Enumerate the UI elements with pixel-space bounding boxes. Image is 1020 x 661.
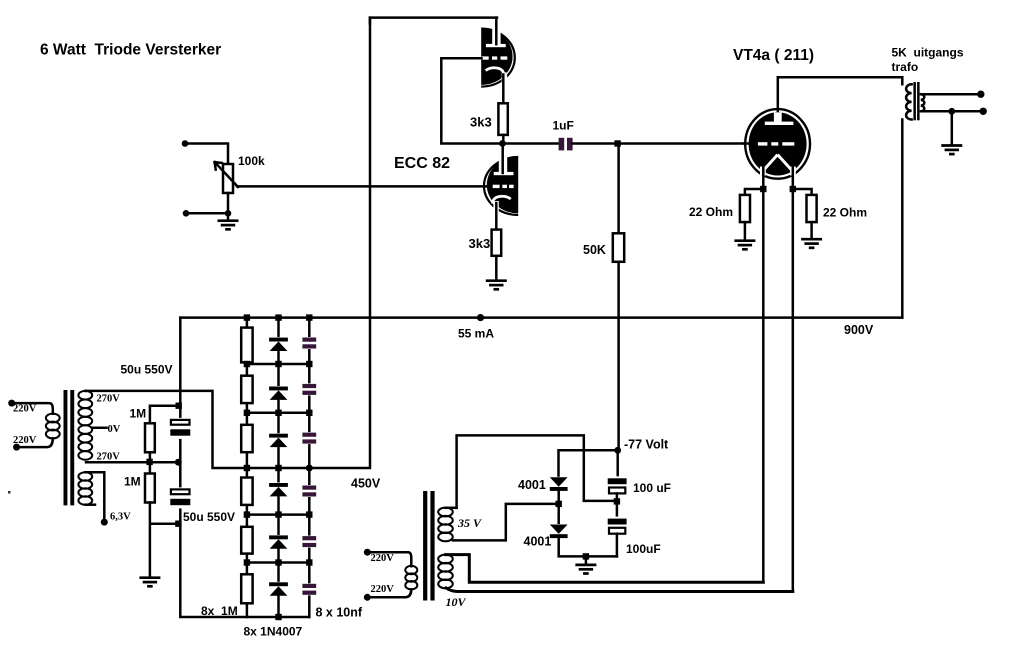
T2 primary terminal bottom bbox=[364, 594, 371, 601]
wire 10V top lead to filament left bbox=[446, 555, 764, 583]
svg-text:ECC 82: ECC 82 bbox=[394, 155, 450, 172]
wire pot bottom to junction bbox=[227, 193, 230, 213]
wire secondary bottom to output terminal bbox=[923, 110, 983, 113]
resistor 22 Ohm left bbox=[740, 195, 750, 222]
junction square filament right bbox=[790, 186, 796, 192]
node B junction square bbox=[614, 140, 620, 146]
ladder diode column bbox=[277, 318, 280, 617]
wire 3k3 lower to ground bbox=[495, 256, 498, 280]
wire junction to ground bbox=[227, 213, 230, 219]
junction squares ladder rung 3 bbox=[244, 410, 313, 416]
transformer T3 secondary winding bbox=[921, 94, 924, 111]
triode U1a (ECC82 upper half) bbox=[481, 28, 515, 87]
T1 HV secondary winding bbox=[78, 391, 92, 460]
wire 1M2 bottom to cap column bbox=[150, 503, 179, 577]
svg-text:4001: 4001 bbox=[524, 535, 552, 549]
wire T1 primary top bbox=[12, 403, 53, 414]
svg-text:220V: 220V bbox=[13, 435, 37, 446]
cap ladder C5 bbox=[302, 536, 316, 548]
ladder rung 6 bbox=[247, 561, 309, 564]
junction squares ladder rung 4 bbox=[244, 465, 282, 471]
wire smoothing cap column bbox=[180, 318, 309, 617]
wire 1M1 bottom bbox=[149, 452, 152, 462]
ground U1b cathode bbox=[486, 281, 507, 290]
T2 primary terminal top bbox=[364, 549, 371, 556]
transformer T2 core bbox=[423, 491, 435, 601]
junction dot 55mA bbox=[477, 314, 484, 321]
svg-text:50K: 50K bbox=[583, 243, 606, 257]
wire filament right to R 22 Ohm bbox=[793, 189, 812, 195]
svg-text:100uF: 100uF bbox=[626, 542, 661, 556]
ground 1M chain bbox=[139, 578, 160, 587]
svg-text:50u 550V: 50u 550V bbox=[121, 363, 173, 377]
capacitor 50u 550V lower bbox=[169, 487, 192, 508]
resistor ladder R1 bbox=[241, 328, 252, 363]
terminal 6.3V bbox=[101, 519, 108, 526]
svg-text:270V: 270V bbox=[97, 394, 121, 405]
resistor 3k3 lower bbox=[492, 230, 502, 256]
svg-text:4001: 4001 bbox=[518, 478, 546, 492]
ground bias doubler bbox=[575, 565, 596, 574]
transformer T1 mains core bbox=[64, 390, 75, 505]
U1b cathode lead bbox=[495, 203, 498, 230]
diode ladder D5 bbox=[269, 535, 288, 549]
wire 50K to -77V node bbox=[617, 262, 620, 451]
ground 22 Ohm right bbox=[801, 239, 822, 248]
svg-text:6,3V: 6,3V bbox=[110, 512, 131, 523]
svg-text:0V: 0V bbox=[108, 424, 121, 435]
wire T2 primary bottom bbox=[367, 589, 411, 597]
wire 270V bottom bbox=[86, 461, 178, 464]
diode 4001 lower bbox=[550, 524, 568, 538]
capacitor 1uF bbox=[559, 138, 573, 151]
stray dot bbox=[8, 491, 11, 494]
capacitor 100uF upper bbox=[606, 476, 629, 495]
svg-text:6 Watt Triode Versterker: 6 Watt Triode Versterker bbox=[40, 42, 221, 59]
wire 900V bus bbox=[180, 316, 902, 319]
junction dot ladder rung 4 cap column bbox=[306, 465, 313, 472]
U2 filament lead right bbox=[792, 167, 795, 189]
U1a cathode lead bbox=[502, 75, 505, 104]
triode U1b (ECC82 lower half, mirrored) bbox=[484, 156, 518, 215]
wire 35V top riser bbox=[457, 435, 617, 508]
ladder resistor column bbox=[246, 318, 249, 617]
resistor 50K bbox=[613, 233, 624, 261]
junction secondary ground bbox=[948, 108, 955, 115]
junction squares ladder top rung bbox=[244, 314, 313, 320]
svg-text:3k3: 3k3 bbox=[469, 236, 491, 251]
wire between 100uF caps bbox=[616, 493, 619, 518]
svg-text:35 V: 35 V bbox=[457, 516, 482, 530]
junction pot bottom bbox=[225, 210, 232, 217]
junction dot -77V bbox=[614, 447, 621, 454]
ground input bbox=[218, 221, 239, 230]
svg-text:1M: 1M bbox=[124, 475, 141, 489]
wire 22 Ohm left to ground bbox=[744, 222, 747, 239]
wire 0V tap bbox=[92, 426, 107, 429]
svg-text:220V: 220V bbox=[13, 404, 37, 415]
U2 plate lead and wire to output transformer bbox=[778, 77, 903, 111]
svg-text:8x 1M: 8x 1M bbox=[201, 604, 238, 618]
T1 primary winding bbox=[46, 414, 60, 439]
wire 6.3V stub bbox=[85, 503, 95, 506]
svg-text:8x 1N4007: 8x 1N4007 bbox=[244, 625, 303, 639]
T2 primary winding bbox=[405, 566, 417, 590]
T1 heater winding 6.3V bbox=[78, 472, 92, 504]
ground output secondary bbox=[941, 146, 962, 155]
wire 10V bottom lead to filament right bbox=[446, 588, 793, 592]
svg-text:270V: 270V bbox=[97, 452, 121, 463]
svg-text:220V: 220V bbox=[371, 584, 395, 595]
resistor ladder R5 bbox=[241, 527, 252, 554]
wire filament left to R 22 Ohm bbox=[745, 189, 763, 195]
svg-text:100k: 100k bbox=[238, 154, 265, 168]
diode ladder D6 bbox=[269, 582, 288, 596]
wire secondary to ground bbox=[951, 111, 954, 144]
wire 450V net: 270V-top to rung4 to top B+ wire bbox=[86, 18, 497, 468]
resistor ladder R6 bbox=[241, 574, 252, 603]
svg-text:1uF: 1uF bbox=[553, 119, 574, 133]
wire 35V bottom to diode mid bbox=[453, 504, 556, 541]
resistor ladder R3 bbox=[241, 425, 252, 452]
node A junction dot bbox=[499, 140, 506, 147]
cap ladder C1 bbox=[302, 337, 316, 349]
diode ladder D2 bbox=[269, 386, 288, 400]
wire 1M2 top bbox=[149, 462, 152, 474]
diode ladder D3 bbox=[269, 433, 288, 447]
wire 22 Ohm right to ground bbox=[810, 222, 813, 238]
wire -77V node bbox=[559, 450, 618, 477]
wire diode bottom rail bbox=[559, 538, 617, 556]
ladder rung 3 bbox=[247, 412, 309, 415]
svg-text:22 Ohm: 22 Ohm bbox=[689, 205, 733, 219]
junction square ladder bottom bbox=[275, 614, 281, 620]
U2 grid lead bbox=[744, 142, 751, 145]
svg-text:220V: 220V bbox=[371, 553, 395, 564]
cap ladder C6 bbox=[302, 583, 316, 595]
svg-text:5K uitgangs: 5K uitgangs bbox=[892, 46, 964, 60]
junction square filament left bbox=[760, 186, 766, 192]
junction squares ladder rung 6 bbox=[244, 559, 313, 565]
svg-text:22 Ohm: 22 Ohm bbox=[823, 206, 867, 220]
capacitor 50u 550V upper bbox=[169, 418, 192, 439]
cap ladder C4 bbox=[302, 485, 316, 497]
wire ground stub bbox=[585, 556, 588, 563]
pot wiper arrow bbox=[215, 162, 238, 187]
wire node B to 50K bbox=[617, 144, 620, 234]
svg-text:8 x 10nf: 8 x 10nf bbox=[316, 606, 363, 620]
wire 3k3 to node A bbox=[502, 135, 505, 144]
wire filament left long drop bbox=[762, 189, 765, 582]
wire T3 primary bottom to 900V bus bbox=[901, 120, 904, 318]
wire filament right long drop bbox=[792, 189, 795, 592]
wire input bottom bbox=[186, 212, 228, 215]
ground 22 Ohm left bbox=[734, 241, 755, 250]
input terminal upper bbox=[182, 140, 189, 147]
junction square 270V/1M bbox=[146, 459, 152, 465]
resistor 1M lower bbox=[145, 474, 155, 503]
U2 filament lead left bbox=[762, 167, 765, 189]
U1a plate lead bbox=[495, 18, 498, 45]
svg-text:900V: 900V bbox=[844, 323, 874, 337]
U1a grid wire to node A bbox=[441, 58, 500, 143]
capacitor 100uF lower bbox=[606, 517, 629, 536]
svg-text:55 mA: 55 mA bbox=[458, 327, 494, 341]
wire secondary top to output terminal bbox=[923, 93, 981, 96]
svg-text:100 uF: 100 uF bbox=[633, 481, 671, 495]
wire diode mid bbox=[557, 491, 560, 525]
cap ladder C3 bbox=[302, 432, 316, 444]
triode U2 VT4a (211) bbox=[745, 109, 810, 179]
svg-text:50u 550V: 50u 550V bbox=[183, 510, 235, 524]
wire 35V winding top lead bbox=[446, 507, 457, 510]
T2 35V winding bbox=[438, 508, 453, 542]
transformer T3 output primary winding bbox=[906, 84, 912, 119]
output terminal bottom bbox=[980, 108, 987, 115]
wire input top to pot bbox=[185, 144, 228, 165]
svg-text:3k3: 3k3 bbox=[470, 115, 492, 130]
wire -77V to 100uF bbox=[616, 450, 619, 478]
svg-text:-77 Volt: -77 Volt bbox=[624, 438, 669, 452]
diode 4001 upper bbox=[550, 477, 568, 491]
wire T1 primary bottom bbox=[17, 438, 53, 447]
svg-text:VT4a ( 211): VT4a ( 211) bbox=[733, 47, 814, 64]
junction square 1M2 bottom bbox=[175, 521, 181, 527]
resistor ladder R4 bbox=[241, 478, 252, 505]
transformer T3 core bbox=[913, 82, 919, 120]
resistor 3k3 upper bbox=[498, 103, 507, 135]
input terminal lower bbox=[183, 210, 190, 217]
junction squares ladder rung 5 bbox=[244, 511, 313, 517]
junction square 1M1 top bbox=[176, 403, 182, 409]
wire 6.3V lead bbox=[85, 472, 104, 522]
junction square diode mid bbox=[556, 501, 562, 507]
wire node A to C 1uF bbox=[503, 142, 559, 145]
svg-text:10V: 10V bbox=[446, 595, 467, 609]
wire 1uF to U2 grid bbox=[573, 142, 745, 145]
wire T2 primary top bbox=[367, 552, 411, 566]
svg-text:450V: 450V bbox=[351, 477, 381, 491]
junction squares ladder rung 2 bbox=[244, 361, 313, 367]
diode ladder D1 bbox=[269, 337, 288, 351]
resistor 22 Ohm right bbox=[807, 195, 817, 222]
junction square ground stub bbox=[583, 553, 589, 559]
ladder rung 5 bbox=[247, 513, 309, 516]
T1 primary terminal top bbox=[8, 400, 15, 407]
junction dot 270V/cap column bbox=[175, 459, 182, 466]
ladder cap column bbox=[308, 318, 311, 617]
wire T1 HV top lead bbox=[84, 390, 87, 393]
diode ladder D4 bbox=[269, 483, 288, 497]
junction square cap mid bbox=[614, 498, 620, 504]
T1 primary terminal bottom bbox=[13, 444, 20, 451]
svg-text:1M: 1M bbox=[130, 407, 147, 421]
resistor ladder R2 bbox=[241, 376, 252, 403]
wire 1M1 top to cap column bbox=[150, 406, 179, 424]
resistor 1M upper bbox=[145, 423, 155, 452]
U1b plate lead bbox=[501, 144, 504, 174]
T2 10V winding bbox=[438, 555, 453, 589]
wire wiper to U1b grid bbox=[237, 185, 492, 188]
potentiometer 100k bbox=[223, 164, 233, 193]
wire stub top-left corner bbox=[369, 18, 372, 24]
wire 100uF lower to rail bbox=[616, 534, 619, 557]
cap ladder C2 bbox=[302, 383, 316, 395]
output terminal top bbox=[977, 91, 984, 98]
svg-text:trafo: trafo bbox=[892, 60, 919, 74]
ladder rung 2 bbox=[247, 363, 309, 366]
